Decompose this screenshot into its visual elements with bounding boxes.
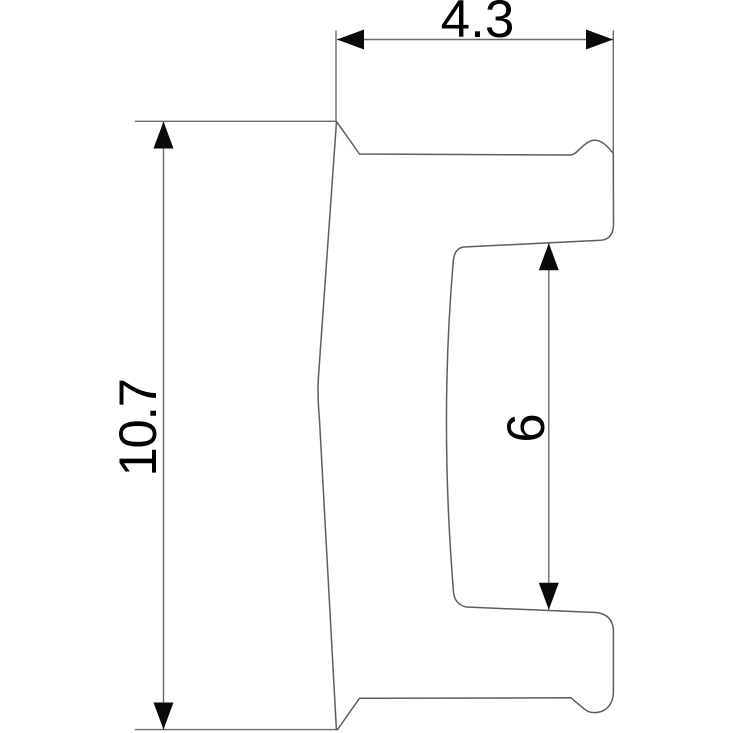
dimension 10.7 : top arrowhead: [154, 122, 174, 149]
dimension 10.7 : bottom arrowhead: [154, 703, 174, 730]
dimension 4.3 : extension line right: [612, 31, 614, 153]
profile outline: [318, 122, 613, 730]
dimension 4.3 : left arrowhead: [337, 30, 364, 50]
dimension 4.3 : extension line left: [335, 31, 337, 122]
svg-text:10.7: 10.7: [109, 379, 168, 476]
dimension 10.7 : dimension line: [163, 122, 165, 730]
dimension 10.7 : extension line bottom: [135, 729, 336, 731]
dimension 4.3 : right arrowhead: [586, 30, 613, 50]
dimension 6 : bottom arrowhead: [539, 583, 559, 610]
dimension 6 : dimension line: [548, 243, 550, 610]
dimension 4.3 : dimension line: [337, 39, 613, 41]
dimension 10.7 : extension line top: [135, 120, 336, 122]
svg-text:6: 6: [497, 413, 556, 442]
dimension 6 : top arrowhead: [539, 243, 559, 270]
svg-text:4.3: 4.3: [441, 0, 515, 49]
